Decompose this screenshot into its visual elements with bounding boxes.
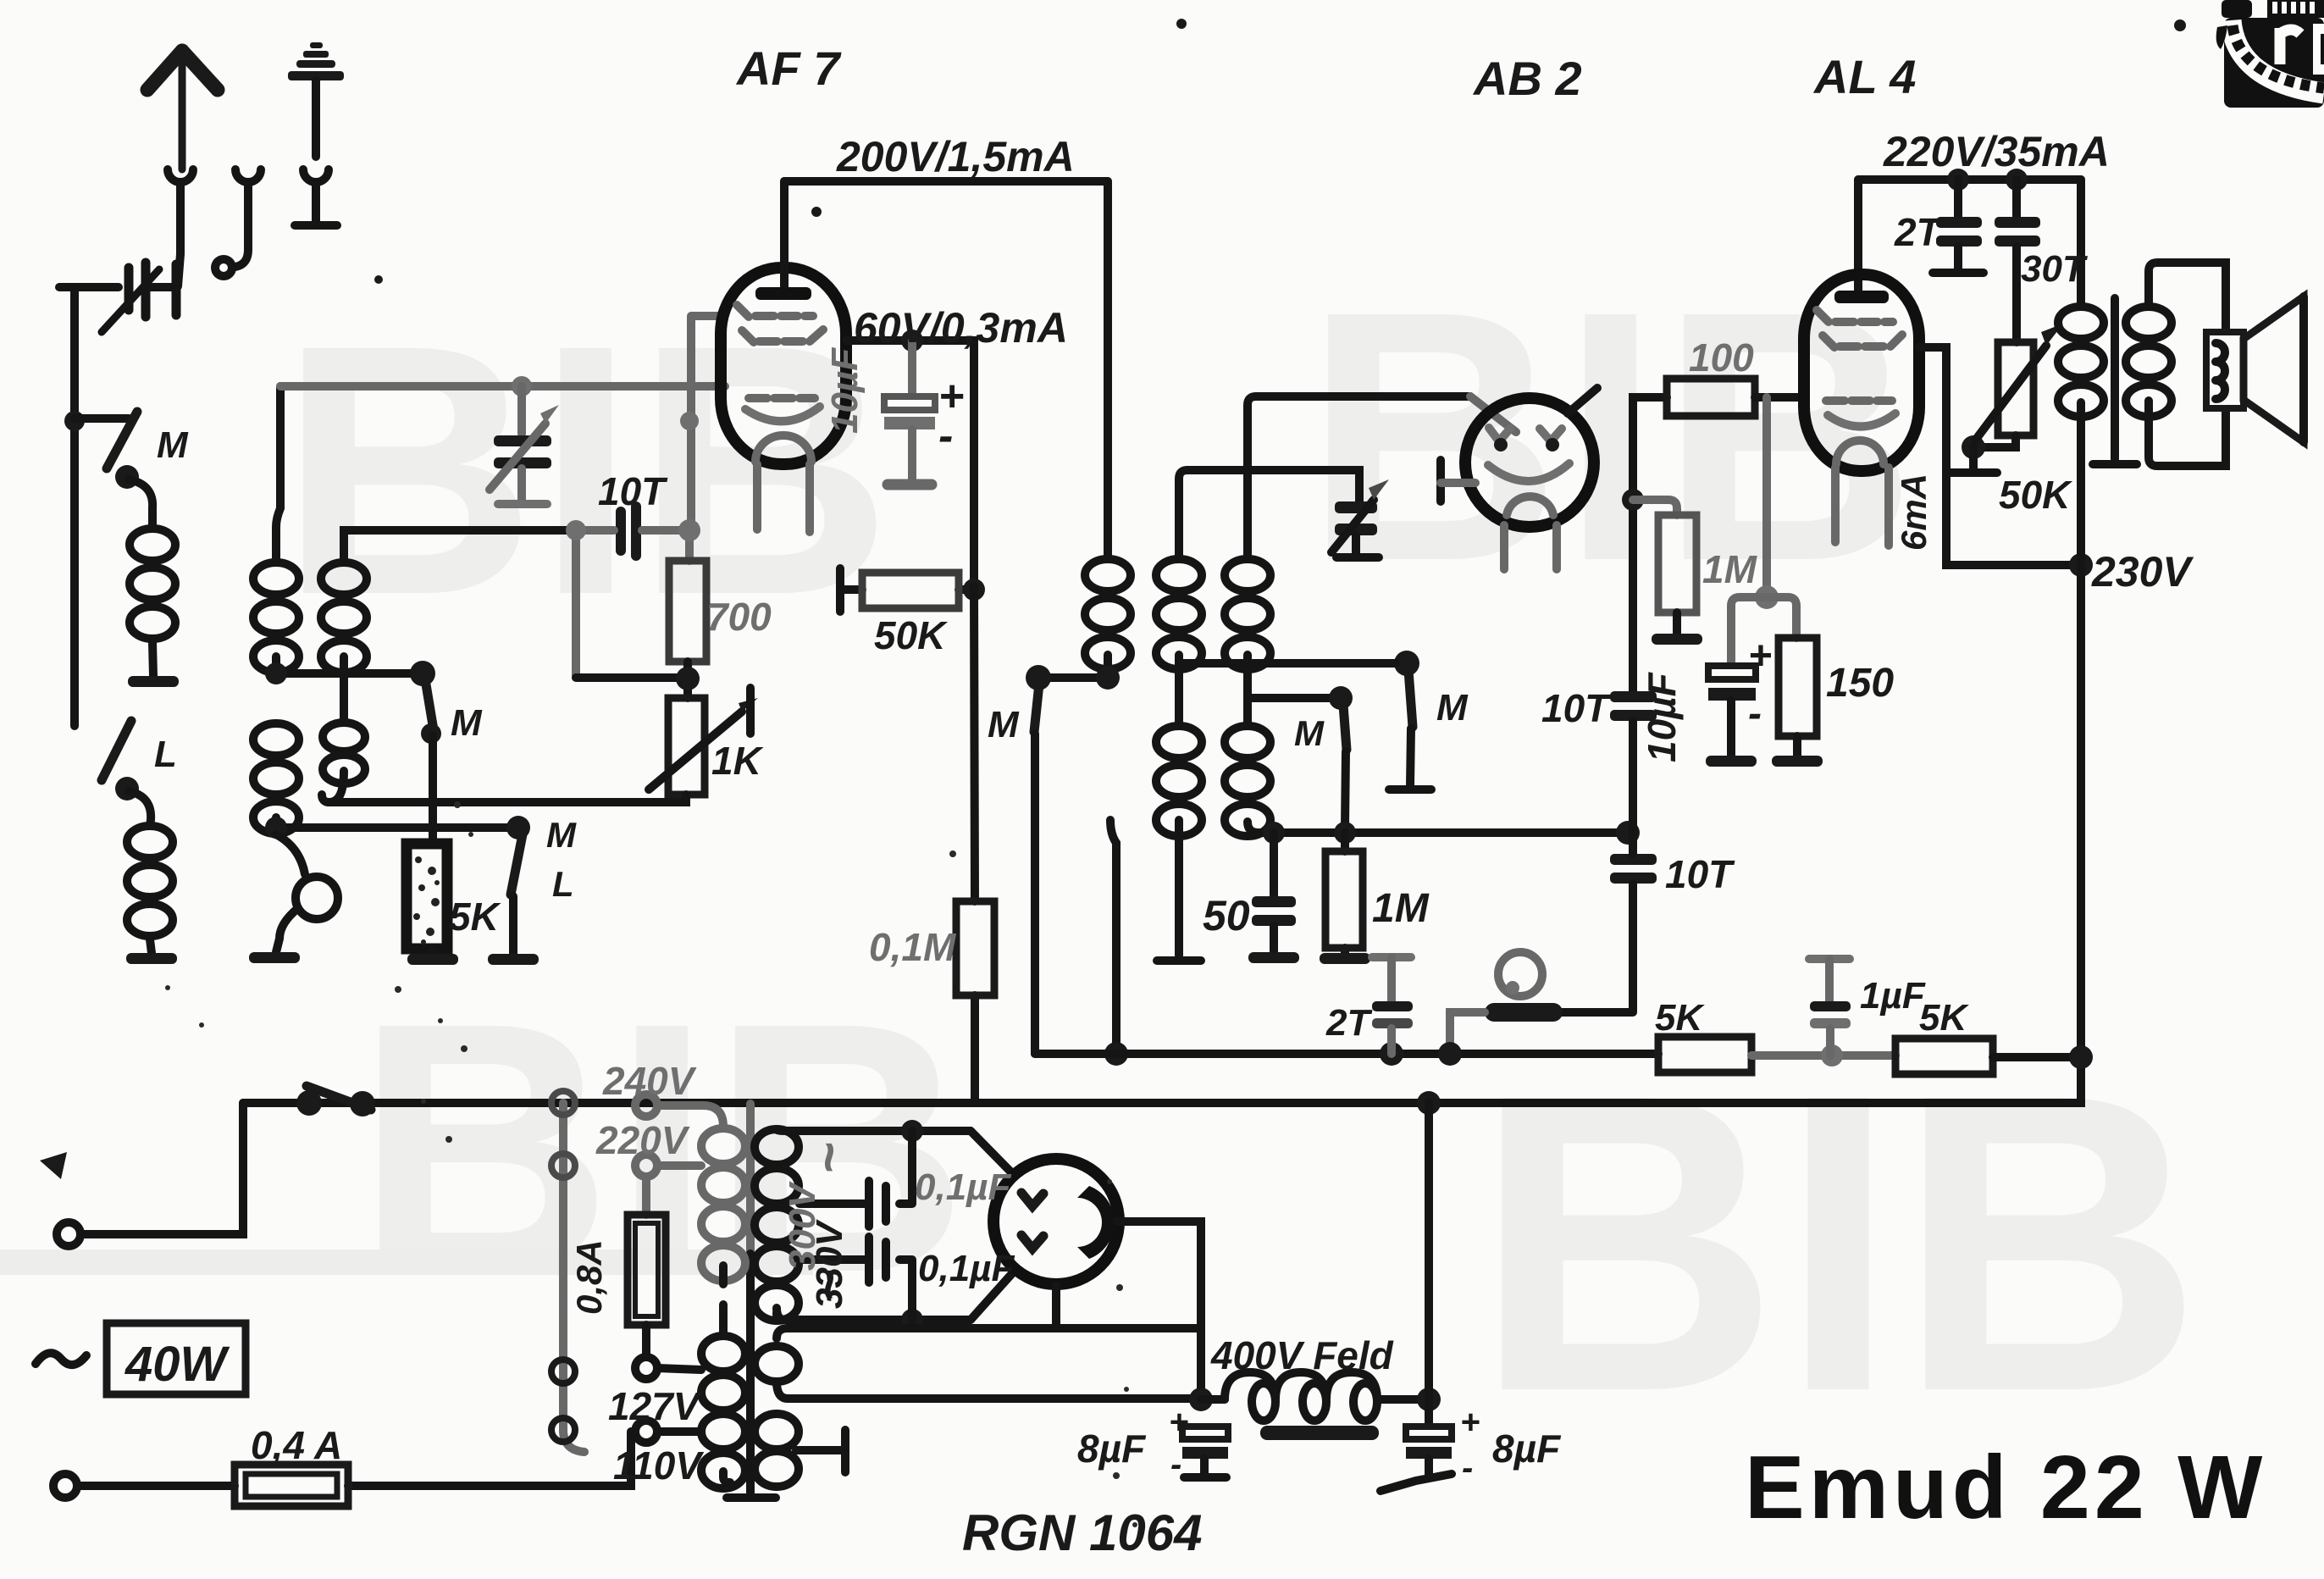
svg-text:240V: 240V [602, 1059, 697, 1103]
svg-text:5K: 5K [1919, 997, 1969, 1039]
svg-text:AB 2: AB 2 [1472, 52, 1582, 105]
svg-text:-: - [1170, 1446, 1181, 1483]
svg-text:-: - [1748, 691, 1762, 736]
svg-text:700: 700 [706, 595, 772, 639]
svg-text:10T: 10T [1665, 852, 1735, 896]
svg-text:10T: 10T [598, 469, 668, 513]
svg-text:230V: 230V [2091, 548, 2194, 596]
svg-text:0,1M: 0,1M [869, 925, 957, 969]
svg-text:100: 100 [1689, 335, 1754, 380]
svg-text:AL 4: AL 4 [1812, 50, 1916, 103]
svg-text:+: + [1169, 1404, 1188, 1441]
svg-text:1K: 1K [711, 739, 764, 783]
svg-text:60V/0,3mA: 60V/0,3mA [854, 304, 1068, 352]
svg-text:127V: 127V [608, 1384, 702, 1428]
svg-text:L: L [154, 734, 177, 775]
svg-text:220V: 220V [595, 1118, 690, 1162]
svg-text:M: M [988, 704, 1020, 745]
svg-text:200V/1,5mA: 200V/1,5mA [836, 133, 1075, 180]
svg-text:0,8A: 0,8A [569, 1239, 609, 1315]
svg-text:BIB: BIB [279, 272, 892, 669]
svg-text:2T: 2T [1894, 210, 1944, 254]
svg-text:AF 7: AF 7 [735, 42, 842, 95]
svg-text:Emud 22 W: Emud 22 W [1745, 1438, 2266, 1537]
svg-text:50K: 50K [874, 613, 948, 657]
svg-text:5K: 5K [449, 895, 501, 939]
svg-text:BIB: BIB [1474, 1006, 2203, 1479]
svg-text:~: ~ [798, 1270, 859, 1301]
svg-text:+: + [1748, 634, 1772, 679]
svg-text:220V/35mA: 220V/35mA [1883, 128, 2110, 175]
svg-text:-: - [1462, 1449, 1473, 1487]
svg-text:0,4 A: 0,4 A [251, 1423, 342, 1467]
svg-text:40W: 40W [125, 1337, 230, 1392]
svg-text:L: L [552, 864, 574, 904]
svg-text:8µF: 8µF [1077, 1427, 1147, 1471]
svg-text:400V Feld: 400V Feld [1210, 1333, 1394, 1377]
svg-text:0,1µF: 0,1µF [915, 1166, 1012, 1208]
svg-text:+: + [1460, 1404, 1480, 1441]
svg-text:110V: 110V [613, 1443, 704, 1488]
svg-text:M: M [451, 702, 483, 744]
svg-text:150: 150 [1826, 661, 1894, 706]
svg-text:2T: 2T [1325, 1002, 1372, 1044]
svg-text:10µF: 10µF [1640, 671, 1684, 762]
svg-text:10T: 10T [1541, 686, 1612, 730]
svg-text:50K: 50K [1999, 473, 2072, 517]
svg-text:BIB: BIB [1304, 238, 1917, 635]
svg-text:M: M [1436, 687, 1469, 729]
svg-text:M: M [1294, 713, 1325, 753]
svg-text:M: M [157, 424, 189, 466]
svg-text:-: - [938, 412, 953, 461]
svg-text:1M: 1M [1702, 547, 1758, 591]
svg-text:0,1µF: 0,1µF [918, 1248, 1015, 1289]
svg-text:~: ~ [798, 1143, 859, 1174]
svg-text:1M: 1M [1372, 886, 1430, 931]
svg-text:RGN 1064: RGN 1064 [962, 1504, 1202, 1561]
svg-text:5K: 5K [1655, 997, 1705, 1039]
svg-text:M: M [546, 815, 577, 855]
svg-text:6mA: 6mA [1894, 474, 1934, 551]
svg-text:10µF: 10µF [824, 347, 866, 434]
svg-text:30T: 30T [2021, 248, 2088, 290]
svg-text:8µF: 8µF [1492, 1427, 1562, 1471]
svg-text:1µF: 1µF [1860, 975, 1926, 1017]
svg-text:50: 50 [1203, 892, 1250, 939]
